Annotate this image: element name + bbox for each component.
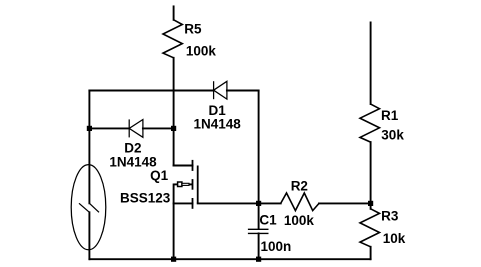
svg-text:R2: R2 (291, 178, 308, 193)
junction C1 at bottom rail (256, 257, 261, 262)
svg-text:R3: R3 (381, 208, 399, 223)
wire R3 bottom lead (370, 247, 372, 259)
wire C1 top lead (258, 203, 260, 229)
transistor Q1 source contact bar (192, 198, 194, 209)
junction D2 right (171, 126, 176, 131)
svg-text:100k: 100k (186, 44, 217, 59)
diode D2 (128, 119, 130, 137)
svg-text:D2: D2 (124, 141, 141, 156)
svg-text:10k: 10k (383, 231, 406, 246)
junction Q1 source at bottom rail (171, 257, 176, 262)
wire R5 top lead (173, 6, 175, 19)
wire Q1 gate/source vertical to bottom rail (173, 184, 175, 259)
transistor Q1 channel (197, 166, 199, 204)
svg-text:R1: R1 (381, 108, 399, 123)
junction D2 left (87, 126, 92, 131)
svg-text:30k: 30k (381, 128, 404, 143)
junction node C1/R2 (256, 201, 261, 206)
wire R1 bottom to node (370, 142, 372, 209)
transistor Q1 drain contact bar (192, 160, 194, 171)
wire D2 row right lead (143, 127, 174, 129)
svg-text:R5: R5 (184, 22, 202, 37)
transistor Q1 source lead (174, 202, 193, 204)
tilt-switch contact right slash (89, 203, 99, 212)
tilt-switch sensor ellipse (71, 165, 106, 250)
wire right vertical from top rail to node at C1 (258, 91, 260, 204)
junction node R1/R2/R3 (368, 201, 373, 206)
transistor Q1 gate small box (178, 182, 182, 187)
transistor Q1 gate slot rectangle (182, 183, 189, 185)
wire bottom rail (89, 258, 370, 260)
resistor R3 (360, 209, 380, 247)
diode D1 (213, 81, 215, 99)
svg-text:Q1: Q1 (150, 168, 169, 183)
transistor Q1 drain lead (174, 165, 193, 167)
wire lamp lower lead to bottom rail (88, 212, 90, 259)
tilt-switch contact left slash (79, 203, 89, 212)
transistor Q1 gate bar (192, 179, 194, 190)
wire top rail right segment (227, 90, 259, 92)
wire top rail left segment (89, 90, 213, 92)
wire lamp upper lead (88, 128, 90, 203)
wire right column top (370, 22, 372, 104)
wire C1 bottom lead (258, 233, 260, 259)
capacitor C1 plates (248, 228, 269, 230)
wire D2 row left lead (89, 127, 129, 129)
svg-text:100k: 100k (284, 213, 315, 228)
svg-text:BSS123: BSS123 (120, 191, 171, 206)
wire R5 bottom to D2 row and Q1 drain column (173, 58, 175, 166)
svg-text:C1: C1 (259, 212, 277, 227)
transistor Q1 gate lead (174, 183, 178, 185)
resistor R1 (360, 104, 380, 142)
svg-text:100n: 100n (261, 239, 292, 254)
wire Q1 channel to node C1/R2 (198, 202, 281, 204)
wire R2 right lead (319, 202, 371, 204)
svg-text:1N4148: 1N4148 (194, 116, 242, 131)
resistor R2 (281, 193, 319, 211)
wire left vertical from top rail to D2 row (88, 91, 90, 129)
resistor R5 (163, 20, 182, 58)
